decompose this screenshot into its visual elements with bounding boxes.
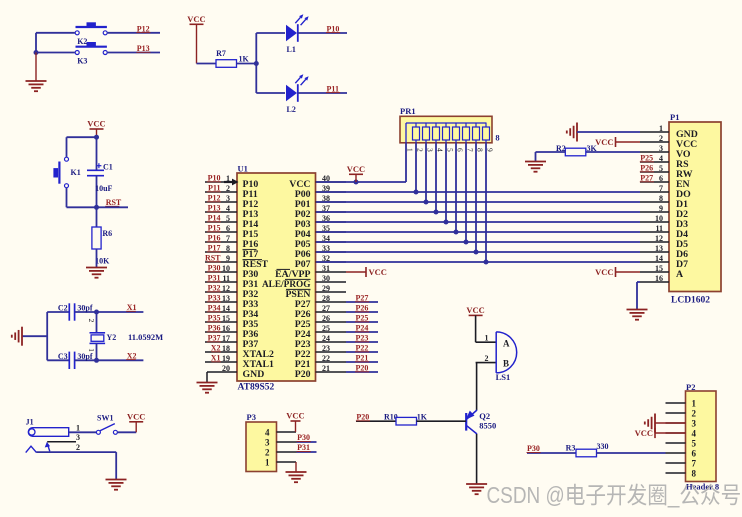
svg-text:P31: P31 [208, 274, 221, 283]
svg-text:P27: P27 [356, 294, 369, 303]
svg-text:10: 10 [655, 214, 663, 223]
svg-text:26: 26 [322, 314, 330, 323]
svg-text:GND: GND [243, 369, 265, 380]
svg-text:7: 7 [659, 184, 663, 193]
svg-text:6: 6 [659, 174, 663, 183]
svg-text:P2: P2 [686, 382, 695, 392]
svg-text:VCC: VCC [87, 119, 105, 129]
svg-text:1K: 1K [417, 413, 428, 422]
svg-text:L2: L2 [287, 105, 296, 114]
svg-text:3K: 3K [587, 144, 598, 153]
svg-text:P20: P20 [295, 369, 311, 380]
svg-text:VCC: VCC [466, 305, 484, 315]
svg-text:P20: P20 [356, 413, 369, 422]
svg-text:LS1: LS1 [496, 372, 511, 382]
svg-text:P23: P23 [356, 334, 369, 343]
svg-text:30: 30 [322, 274, 330, 283]
svg-text:17: 17 [222, 334, 230, 343]
svg-text:31: 31 [322, 264, 330, 273]
svg-text:8: 8 [226, 244, 230, 253]
svg-text:VCC: VCC [595, 267, 613, 277]
svg-text:29: 29 [322, 284, 330, 293]
svg-text:1: 1 [76, 424, 80, 433]
svg-text:P12: P12 [208, 194, 221, 203]
svg-text:30pf: 30pf [77, 352, 92, 361]
svg-text:30pf: 30pf [77, 304, 92, 313]
svg-text:B: B [503, 358, 509, 368]
svg-text:AT89S52: AT89S52 [238, 383, 275, 393]
svg-text:P33: P33 [208, 294, 221, 303]
svg-text:P31: P31 [297, 443, 310, 452]
svg-text:P25: P25 [356, 314, 369, 323]
svg-text:X1: X1 [211, 354, 221, 363]
svg-text:27: 27 [322, 304, 330, 313]
svg-text:8: 8 [495, 133, 499, 143]
svg-text:8: 8 [659, 194, 663, 203]
svg-text:P13: P13 [137, 44, 150, 53]
svg-text:K3: K3 [77, 56, 87, 65]
svg-text:VCC: VCC [369, 267, 387, 277]
svg-text:8550: 8550 [479, 420, 496, 430]
svg-text:Y2: Y2 [107, 333, 117, 342]
svg-text:12: 12 [655, 234, 663, 243]
svg-text:P26: P26 [640, 164, 653, 173]
svg-text:RST: RST [106, 198, 122, 207]
svg-text:4: 4 [692, 429, 697, 439]
svg-text:P1: P1 [670, 112, 679, 122]
svg-text:P36: P36 [208, 324, 221, 333]
svg-text:2: 2 [226, 184, 230, 193]
svg-text:4: 4 [226, 204, 230, 213]
svg-text:P13: P13 [208, 204, 221, 213]
svg-text:R7: R7 [216, 49, 226, 58]
svg-text:2: 2 [87, 319, 96, 323]
svg-text:7: 7 [692, 459, 697, 469]
svg-text:18: 18 [222, 344, 230, 353]
svg-text:1: 1 [659, 124, 663, 133]
svg-text:14: 14 [222, 304, 230, 313]
svg-text:24: 24 [322, 334, 330, 343]
svg-text:P15: P15 [208, 224, 221, 233]
svg-text:P34: P34 [208, 304, 221, 313]
svg-text:P11: P11 [208, 184, 220, 193]
svg-text:P22: P22 [356, 344, 369, 353]
svg-text:5: 5 [692, 439, 697, 449]
svg-text:LCD1602: LCD1602 [671, 296, 710, 306]
svg-text:22: 22 [322, 354, 330, 363]
svg-text:C1: C1 [103, 163, 113, 172]
svg-text:3: 3 [226, 194, 230, 203]
svg-text:1K: 1K [239, 55, 250, 64]
svg-text:P21: P21 [356, 354, 369, 363]
svg-text:CSDN @电子开发圈_公众号: CSDN @电子开发圈_公众号 [487, 482, 742, 508]
svg-text:3: 3 [659, 144, 663, 153]
svg-text:VCC: VCC [286, 411, 304, 421]
svg-text:PR1: PR1 [400, 106, 416, 116]
svg-text:P14: P14 [208, 214, 221, 223]
svg-text:1: 1 [87, 348, 96, 352]
svg-text:SW1: SW1 [97, 414, 113, 423]
svg-text:P26: P26 [356, 304, 369, 313]
svg-text:P10: P10 [327, 24, 340, 33]
svg-text:R6: R6 [102, 229, 112, 238]
svg-text:VCC: VCC [127, 411, 145, 421]
svg-text:28: 28 [322, 294, 330, 303]
svg-text:330: 330 [597, 442, 609, 451]
svg-text:EA/VPP: EA/VPP [275, 269, 310, 280]
svg-text:P32: P32 [208, 284, 221, 293]
svg-text:3: 3 [265, 438, 270, 448]
svg-text:P30: P30 [527, 444, 540, 453]
svg-text:R3: R3 [566, 443, 576, 452]
svg-text:5: 5 [226, 214, 230, 223]
svg-text:C2: C2 [58, 304, 68, 313]
svg-text:P12: P12 [137, 24, 150, 33]
svg-text:21: 21 [322, 364, 330, 373]
svg-text:X2: X2 [127, 351, 137, 360]
svg-text:A: A [503, 339, 510, 349]
svg-text:K2: K2 [77, 37, 87, 46]
svg-text:L1: L1 [287, 45, 296, 54]
svg-text:12: 12 [222, 284, 230, 293]
svg-text:6: 6 [226, 224, 230, 233]
svg-text:11: 11 [222, 274, 230, 283]
svg-text:P17: P17 [208, 244, 221, 253]
svg-text:P24: P24 [356, 324, 369, 333]
svg-text:4: 4 [659, 154, 663, 163]
svg-text:C3: C3 [58, 352, 68, 361]
svg-text:VCC: VCC [187, 14, 205, 24]
svg-text:VCC: VCC [635, 428, 653, 438]
svg-text:9: 9 [226, 254, 230, 263]
svg-text:4: 4 [265, 428, 270, 438]
svg-text:20: 20 [222, 364, 230, 373]
svg-text:P27: P27 [640, 174, 653, 183]
svg-text:15: 15 [655, 264, 663, 273]
svg-text:P3: P3 [247, 412, 256, 422]
svg-text:19: 19 [222, 354, 230, 363]
svg-text:P10: P10 [208, 174, 221, 183]
svg-text:2: 2 [659, 134, 663, 143]
svg-text:8: 8 [692, 469, 697, 479]
svg-text:VCC: VCC [595, 137, 613, 147]
svg-text:3: 3 [692, 419, 697, 429]
svg-text:14: 14 [655, 254, 663, 263]
svg-text:P25: P25 [640, 154, 653, 163]
svg-text:P30: P30 [297, 433, 310, 442]
svg-text:11.0592M: 11.0592M [128, 332, 163, 342]
svg-text:P37: P37 [208, 334, 221, 343]
svg-text:J1: J1 [26, 418, 34, 427]
svg-text:13: 13 [222, 294, 230, 303]
svg-text:10: 10 [222, 264, 230, 273]
svg-text:P30: P30 [208, 264, 221, 273]
svg-text:K1: K1 [71, 168, 81, 177]
svg-text:P20: P20 [356, 364, 369, 373]
svg-text:1: 1 [692, 399, 697, 409]
svg-text:U1: U1 [238, 163, 248, 173]
svg-text:7: 7 [226, 234, 230, 243]
svg-text:2: 2 [692, 409, 697, 419]
svg-text:25: 25 [322, 324, 330, 333]
svg-text:2: 2 [485, 354, 489, 363]
svg-text:13: 13 [655, 244, 663, 253]
svg-text:P16: P16 [208, 234, 221, 243]
svg-text:3: 3 [76, 433, 80, 442]
svg-text:A: A [676, 269, 683, 280]
svg-text:6: 6 [692, 449, 697, 459]
svg-text:P35: P35 [208, 314, 221, 323]
svg-text:15: 15 [222, 314, 230, 323]
svg-text:X2: X2 [211, 344, 221, 353]
svg-text:X1: X1 [127, 303, 137, 312]
svg-text:1: 1 [485, 334, 489, 343]
svg-text:23: 23 [322, 344, 330, 353]
svg-text:16: 16 [222, 324, 230, 333]
svg-text:9: 9 [659, 204, 663, 213]
svg-text:2: 2 [265, 448, 270, 458]
svg-text:16: 16 [655, 274, 663, 283]
svg-text:1: 1 [265, 458, 270, 468]
svg-text:10uF: 10uF [95, 184, 112, 193]
svg-text:5: 5 [659, 164, 663, 173]
svg-text:P11: P11 [327, 84, 339, 93]
svg-text:2: 2 [76, 443, 80, 452]
svg-text:VCC: VCC [347, 164, 365, 174]
svg-text:11: 11 [655, 224, 663, 233]
svg-text:RST: RST [205, 254, 221, 263]
